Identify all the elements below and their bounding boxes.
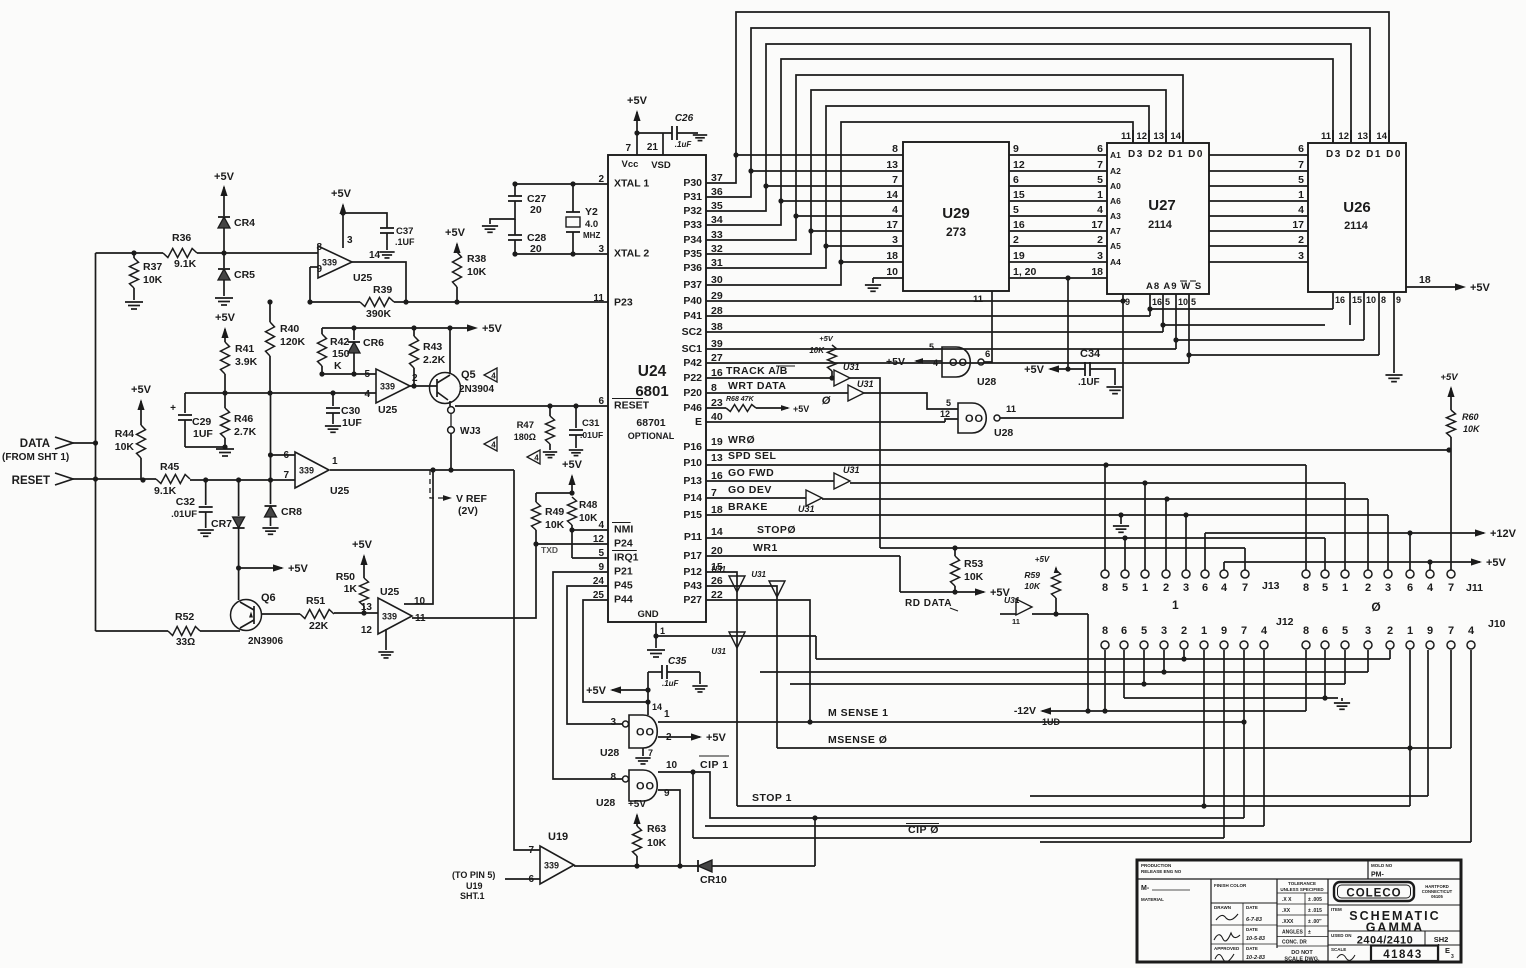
svg-text:+5V: +5V xyxy=(819,334,834,343)
wire U25d pin12 gnd xyxy=(385,629,387,650)
svg-text:DATE: DATE xyxy=(1246,946,1258,951)
wire gnd line to right xyxy=(656,635,816,637)
diode CR4 xyxy=(218,217,230,228)
svg-text:+12V: +12V xyxy=(1490,528,1517,540)
svg-text:14: 14 xyxy=(369,250,381,261)
connector J10 pin 7 xyxy=(1447,641,1455,649)
svg-text:4: 4 xyxy=(1468,625,1475,637)
svg-text:R47: R47 xyxy=(517,420,534,431)
transistor Q5 2N3904 xyxy=(430,373,461,404)
svg-text:SC2: SC2 xyxy=(682,326,703,338)
svg-text:11: 11 xyxy=(1006,404,1017,415)
svg-text:R63: R63 xyxy=(647,823,666,835)
wire U29 pin10 ground xyxy=(873,277,903,279)
node RESET input xyxy=(55,473,73,485)
svg-text:2: 2 xyxy=(1365,582,1371,594)
wire GO DEV line xyxy=(706,497,806,499)
svg-text:12: 12 xyxy=(940,409,950,419)
svg-text:R53: R53 xyxy=(964,558,983,570)
svg-text:5: 5 xyxy=(1141,625,1147,637)
svg-text:6-7-83: 6-7-83 xyxy=(1246,917,1262,923)
sheet ref triangle near R47 xyxy=(527,450,540,464)
svg-text:U31: U31 xyxy=(751,570,766,579)
svg-text:Vcc: Vcc xyxy=(622,159,639,170)
svg-text:C29: C29 xyxy=(192,416,211,428)
ground C30 xyxy=(325,425,341,427)
svg-text:OO: OO xyxy=(636,727,655,739)
power +5V at U25a xyxy=(342,205,344,248)
svg-text:13: 13 xyxy=(1357,131,1368,142)
svg-text:P45: P45 xyxy=(614,580,633,592)
ground C32 xyxy=(198,529,214,531)
svg-text:U28: U28 xyxy=(994,427,1013,439)
capacitor C34 xyxy=(1050,368,1085,370)
svg-text:9.1K: 9.1K xyxy=(174,258,197,270)
svg-text:VSD: VSD xyxy=(651,160,671,171)
svg-text:U31: U31 xyxy=(711,647,726,656)
svg-text:1: 1 xyxy=(1172,598,1179,612)
svg-text:2N3904: 2N3904 xyxy=(459,384,494,395)
connector J10 pin 2 xyxy=(1386,641,1394,649)
U26 top pin 11 xyxy=(1332,130,1334,143)
svg-text:Y2: Y2 xyxy=(585,206,598,218)
svg-text:390K: 390K xyxy=(366,308,392,320)
U26 top pin 13 xyxy=(1369,130,1371,143)
connector J12 pin 7 xyxy=(1240,641,1248,649)
wire J11-6 stub xyxy=(1409,533,1411,570)
connector J10 pin 6 xyxy=(1321,641,1329,649)
connector J10 pin 4 xyxy=(1467,641,1475,649)
svg-text:P16: P16 xyxy=(683,441,702,453)
svg-text:7: 7 xyxy=(1298,159,1304,171)
svg-text:CR8: CR8 xyxy=(281,506,302,518)
svg-text:C32: C32 xyxy=(176,496,195,508)
wire P12 15 chain xyxy=(706,572,737,806)
ground at U29 pin10 xyxy=(865,284,881,286)
svg-text:DATA: DATA xyxy=(20,438,50,450)
svg-text:339: 339 xyxy=(380,382,395,392)
svg-text:GO FWD: GO FWD xyxy=(728,467,774,479)
capacitor C32 xyxy=(205,480,207,505)
wire R53 top line xyxy=(880,547,1245,549)
svg-text:UNLESS SPECIFIED: UNLESS SPECIFIED xyxy=(1280,887,1324,892)
svg-text:OO: OO xyxy=(965,413,984,425)
wire WR1 to RD DATA line xyxy=(899,556,901,592)
sheet ref triangle near Q5 xyxy=(484,368,497,382)
svg-text:5: 5 xyxy=(1122,582,1128,594)
U26 bottom pin 9 xyxy=(1393,292,1395,373)
power +5V at R41 xyxy=(221,327,228,338)
wire C28 net xyxy=(514,219,516,235)
svg-text:P14: P14 xyxy=(683,492,702,504)
svg-text:M-: M- xyxy=(1141,885,1150,892)
svg-text:+5V: +5V xyxy=(586,685,607,697)
svg-text:WRT DATA: WRT DATA xyxy=(728,380,786,392)
wire STOP 1 line xyxy=(737,805,1410,807)
buffer U31a xyxy=(834,370,850,386)
svg-text:.01UF: .01UF xyxy=(171,509,197,520)
svg-text:P42: P42 xyxy=(683,357,702,369)
svg-text:P15: P15 xyxy=(683,509,702,521)
wire data bus loop P34 to U27 D0 pin14 xyxy=(706,75,1183,240)
U27 top pin 11 xyxy=(1132,130,1134,143)
svg-text:E: E xyxy=(1445,946,1450,955)
U27 top pin 14 xyxy=(1182,130,1184,143)
svg-text:V REF: V REF xyxy=(456,493,488,505)
capacitor C37 xyxy=(380,227,394,229)
wire J13-6 stub +12V xyxy=(1204,533,1206,570)
svg-text:P21: P21 xyxy=(614,566,633,578)
op-amp U25b xyxy=(376,369,410,403)
svg-text:U31: U31 xyxy=(1004,595,1020,605)
svg-text:(FROM SHT 1): (FROM SHT 1) xyxy=(2,452,69,463)
node DATA input xyxy=(55,437,73,449)
svg-text:13: 13 xyxy=(886,159,898,171)
svg-text:DATE: DATE xyxy=(1246,927,1258,932)
connector J10 pin 1 xyxy=(1406,641,1414,649)
connector J13 pin 8 xyxy=(1101,570,1109,578)
svg-text:1UF: 1UF xyxy=(193,428,213,440)
svg-text:3: 3 xyxy=(1451,954,1454,960)
svg-text:R43: R43 xyxy=(423,341,442,353)
svg-text:10K: 10K xyxy=(809,346,825,355)
connector J10 pin 8 xyxy=(1302,641,1310,649)
ground C37 xyxy=(379,251,394,253)
U27 bottom pin 16 xyxy=(1149,294,1151,309)
net -12V tap xyxy=(1040,707,1051,714)
svg-text:10: 10 xyxy=(414,596,426,607)
svg-text:U28: U28 xyxy=(977,376,996,388)
svg-text:7: 7 xyxy=(1097,159,1103,171)
connector J11 pin 3 xyxy=(1384,570,1392,578)
connector J13 pin 5 xyxy=(1121,570,1129,578)
resistor R40 xyxy=(269,302,271,322)
IC U27 2114 RAM xyxy=(1107,143,1209,294)
resistor R45 xyxy=(156,475,190,484)
svg-text:R51: R51 xyxy=(306,595,325,607)
wire fan line J12-6 to J10-6 xyxy=(1124,697,1338,699)
svg-text:A3: A3 xyxy=(1110,211,1121,221)
wire GO FWD line xyxy=(706,480,834,482)
svg-text:U25: U25 xyxy=(330,485,349,497)
connector J13 pin 3 xyxy=(1182,570,1190,578)
ground C31 xyxy=(569,449,583,451)
connector J12 pin 8 xyxy=(1101,641,1109,649)
power +5V at R50 xyxy=(360,554,367,565)
svg-text:6: 6 xyxy=(1121,625,1127,637)
connector J12 pin 5 xyxy=(1140,641,1148,649)
svg-text:+5V: +5V xyxy=(331,188,352,200)
svg-text:STOP 1: STOP 1 xyxy=(752,792,792,804)
svg-text:C30: C30 xyxy=(341,405,360,417)
svg-text:GO DEV: GO DEV xyxy=(728,484,772,496)
svg-text:MSENSE Ø: MSENSE Ø xyxy=(828,734,887,746)
wire C34 to ground xyxy=(1090,369,1115,385)
svg-text:WRØ: WRØ xyxy=(728,434,755,446)
resistor R51 xyxy=(300,610,334,619)
svg-text:U25: U25 xyxy=(380,586,399,598)
svg-text:10K: 10K xyxy=(964,571,984,583)
svg-text:8: 8 xyxy=(1303,625,1309,637)
junction R48/R49 top xyxy=(569,490,574,495)
svg-text:6801: 6801 xyxy=(635,383,668,400)
svg-text:± .005: ± .005 xyxy=(1308,897,1322,903)
svg-text:U31: U31 xyxy=(843,362,860,372)
svg-text:4: 4 xyxy=(892,204,898,216)
svg-text:U31: U31 xyxy=(843,465,860,475)
svg-text:4.0: 4.0 xyxy=(585,219,598,230)
svg-text:3: 3 xyxy=(1183,582,1189,594)
svg-text:A8 A9 W S: A8 A9 W S xyxy=(1146,281,1202,292)
svg-text:RESET: RESET xyxy=(614,400,650,412)
svg-text:DO NOT: DO NOT xyxy=(1291,950,1313,956)
ground R46 xyxy=(216,448,234,450)
svg-text:WR1: WR1 xyxy=(753,542,778,554)
svg-text:15: 15 xyxy=(1352,295,1362,305)
svg-text:7: 7 xyxy=(1241,625,1247,637)
svg-text:R50: R50 xyxy=(336,571,355,583)
op-amp U25c xyxy=(295,452,329,488)
resistor R42 xyxy=(321,328,323,334)
wire J11-7 stub R60 xyxy=(1450,437,1452,570)
svg-text:OO: OO xyxy=(636,781,655,793)
wire P45 chain xyxy=(567,586,623,724)
svg-text:PM-: PM- xyxy=(1371,872,1385,879)
wire J11-2 stub xyxy=(1367,499,1369,570)
ground at J10-6 line xyxy=(1341,698,1343,701)
wire U27 to U26 pin 17 line xyxy=(1209,230,1308,232)
wire branch to U29 pin 8 xyxy=(733,152,738,157)
op-amp U25a xyxy=(318,246,352,278)
svg-text:9: 9 xyxy=(316,264,322,275)
svg-text:1K: 1K xyxy=(344,583,358,595)
wire branch to U29 pin 14 xyxy=(778,198,783,203)
power +5V at R38 xyxy=(456,244,458,252)
svg-text:J11: J11 xyxy=(1466,582,1483,594)
resistor R37 xyxy=(133,253,135,258)
svg-text:8: 8 xyxy=(316,242,322,253)
svg-text:U25: U25 xyxy=(378,404,397,416)
ground R37 xyxy=(125,301,143,303)
wire U28a output to U29 pin11 xyxy=(984,291,992,362)
svg-text:3: 3 xyxy=(1097,250,1103,262)
svg-text:9: 9 xyxy=(1013,143,1019,155)
svg-text:12: 12 xyxy=(361,625,373,636)
svg-text:2: 2 xyxy=(1181,625,1187,637)
wire data bus loop P36 to U27 D2 pin12 xyxy=(706,106,1149,268)
ground C35 xyxy=(692,685,707,687)
svg-text:16: 16 xyxy=(1335,295,1345,305)
wire +12V line xyxy=(1205,532,1484,534)
wire data bus loop P32 to U26 D2 pin12 xyxy=(706,44,1351,211)
wire U25a output xyxy=(352,262,406,302)
svg-text:R49: R49 xyxy=(545,506,564,518)
U26 bottom pin 10 xyxy=(1363,292,1365,340)
U27 top pin 13 xyxy=(1165,130,1167,143)
svg-text:4: 4 xyxy=(1427,582,1434,594)
jumper WJ3 circles xyxy=(448,407,455,414)
svg-text:P32: P32 xyxy=(683,205,702,217)
svg-text:Q6: Q6 xyxy=(261,592,276,604)
resistor R52 xyxy=(168,627,200,636)
svg-text:1: 1 xyxy=(660,626,665,636)
U26 bottom pin 15 xyxy=(1349,292,1351,325)
wire S row xyxy=(1189,354,1379,356)
U26 top pin 14 xyxy=(1388,130,1390,143)
svg-text:+5V: +5V xyxy=(627,95,648,107)
ground tap on BRAKE xyxy=(1120,515,1122,524)
svg-text:Q5: Q5 xyxy=(461,369,476,381)
svg-text:U28: U28 xyxy=(600,747,619,759)
svg-text:1: 1 xyxy=(664,709,670,720)
svg-text:13: 13 xyxy=(361,602,373,613)
svg-text:A1: A1 xyxy=(1110,150,1121,160)
svg-text:P36: P36 xyxy=(683,262,702,274)
ground at C26 xyxy=(693,134,707,136)
svg-text:DRAWN: DRAWN xyxy=(1214,905,1231,910)
svg-text:U25: U25 xyxy=(353,272,372,284)
svg-text:XTAL 1: XTAL 1 xyxy=(614,178,649,190)
wire Q6 base to R51 xyxy=(262,613,301,615)
wire U29 pin 6 to U27 pin 5 (A0) xyxy=(1009,185,1107,187)
svg-text:ANGLES: ANGLES xyxy=(1282,930,1304,936)
wire +5V line xyxy=(1224,561,1480,563)
svg-text:4: 4 xyxy=(1221,582,1228,594)
wire U19 pin6 input xyxy=(505,878,540,880)
svg-text:P22: P22 xyxy=(683,372,702,384)
U26 bottom pin 8 xyxy=(1378,292,1380,355)
svg-text:10-2-83: 10-2-83 xyxy=(1246,955,1265,961)
svg-text:P27: P27 xyxy=(683,594,702,606)
svg-text:18: 18 xyxy=(1419,274,1431,286)
wire line 29 P40 xyxy=(706,300,1123,302)
svg-text:C31: C31 xyxy=(582,418,600,429)
svg-text:U29: U29 xyxy=(942,205,970,222)
wire U27 to U26 pin 7 line xyxy=(1209,170,1308,172)
svg-text:U27: U27 xyxy=(1148,197,1176,214)
wire to U28c pin14 xyxy=(647,690,649,715)
buffer U31c xyxy=(834,473,850,489)
svg-text:5: 5 xyxy=(1165,297,1170,307)
svg-text:U24: U24 xyxy=(638,363,667,380)
ground at U24 pin 1 xyxy=(647,649,665,651)
svg-text:P31: P31 xyxy=(683,191,702,203)
wire P43 26 chain xyxy=(706,586,777,748)
svg-text:20: 20 xyxy=(530,204,542,216)
svg-text:A0: A0 xyxy=(1110,181,1121,191)
wire P46 23 line with resistor R68 47K xyxy=(706,407,726,409)
connector J13 pin 6 xyxy=(1201,570,1209,578)
svg-text:17: 17 xyxy=(886,219,898,231)
capacitor C29 polarized xyxy=(184,393,186,413)
svg-text:18: 18 xyxy=(886,250,898,262)
svg-text:± .00″: ± .00″ xyxy=(1308,919,1322,925)
wire Q5 emitter xyxy=(449,401,451,406)
svg-text:1: 1 xyxy=(1142,582,1148,594)
wire J11-4 stub xyxy=(1429,562,1431,570)
svg-text:3: 3 xyxy=(1161,625,1167,637)
sheet ref triangle near WJ3 xyxy=(484,437,497,451)
diode CR10 xyxy=(698,860,712,872)
svg-text:C34: C34 xyxy=(1080,348,1101,360)
wire data bus loop P33 to U26 D3 pin11 xyxy=(706,59,1333,225)
resistor R44 xyxy=(137,425,146,458)
svg-text:SPD SEL: SPD SEL xyxy=(728,450,777,462)
wire TRACK A/B line xyxy=(706,377,834,379)
svg-text:16: 16 xyxy=(1152,297,1162,307)
svg-text:9: 9 xyxy=(1427,625,1433,637)
wire R40 chain down CR8 xyxy=(270,393,272,504)
svg-text:Ø: Ø xyxy=(1371,600,1380,614)
svg-text:M SENSE 1: M SENSE 1 xyxy=(828,707,889,719)
svg-text:7: 7 xyxy=(528,845,534,856)
svg-text:10: 10 xyxy=(1366,295,1376,305)
wire U25c output line xyxy=(330,469,514,471)
wire U27 to U26 pin 3 line xyxy=(1209,261,1308,263)
wire J11-3 stub xyxy=(1387,515,1389,570)
svg-text:2114: 2114 xyxy=(1344,220,1369,232)
svg-text:FINISH COLOR: FINISH COLOR xyxy=(1214,883,1247,888)
svg-text:339: 339 xyxy=(544,861,559,871)
svg-text:8: 8 xyxy=(892,143,898,155)
ground C34 xyxy=(1106,386,1123,388)
svg-text:14: 14 xyxy=(652,702,662,712)
U24 pin 7 Vcc top stub xyxy=(636,133,638,155)
wire A9 row xyxy=(1163,324,1325,326)
diode CR8 xyxy=(265,506,277,517)
svg-text:U19: U19 xyxy=(466,881,483,891)
svg-text:120K: 120K xyxy=(280,336,306,348)
svg-text:1: 1 xyxy=(1342,582,1348,594)
NAND gate U28a xyxy=(942,347,970,377)
svg-text:5: 5 xyxy=(929,342,934,352)
wire data bus loop P31 to U26 D1 pin13 xyxy=(706,28,1370,197)
svg-text:3.9K: 3.9K xyxy=(235,356,258,368)
svg-text:.01UF: .01UF xyxy=(580,430,603,440)
connector J12 pin 4 xyxy=(1260,641,1268,649)
buffer U31g xyxy=(729,632,745,648)
buffer U31e xyxy=(729,576,745,592)
U26 pin18 +5V xyxy=(1406,286,1462,288)
svg-text:APPROVED: APPROVED xyxy=(1214,946,1240,951)
wire U28d pin9 down xyxy=(658,790,680,866)
svg-text:R44: R44 xyxy=(115,428,134,440)
ground CR5 xyxy=(215,297,233,299)
power +5V at R44 xyxy=(137,399,144,410)
svg-text:CR10: CR10 xyxy=(700,874,727,886)
svg-text:339: 339 xyxy=(322,258,337,268)
svg-text:2114: 2114 xyxy=(1148,219,1173,231)
svg-text:2.7K: 2.7K xyxy=(234,426,257,438)
svg-text:A6: A6 xyxy=(1110,196,1121,206)
svg-text:15: 15 xyxy=(1013,189,1025,201)
resistor R38 xyxy=(456,287,458,302)
svg-text:+5V: +5V xyxy=(445,227,466,239)
wire data bus loop P30 to U26 D0 pin14 xyxy=(706,12,1389,183)
svg-text:10K: 10K xyxy=(115,441,135,453)
svg-text:OO: OO xyxy=(949,357,968,369)
svg-text:4: 4 xyxy=(534,454,539,463)
wire fan line J12-5 to J10-5 xyxy=(790,683,1345,685)
wire line 39 SC1 xyxy=(706,348,1176,350)
capacitor C31 xyxy=(575,406,577,428)
svg-text:8: 8 xyxy=(1102,582,1108,594)
svg-text:WJ3: WJ3 xyxy=(460,426,481,437)
svg-text:14: 14 xyxy=(1170,131,1181,142)
buffer U31h RD DATA xyxy=(1016,599,1032,615)
svg-text:SCALE: SCALE xyxy=(1331,947,1346,952)
svg-text:CONC. DR: CONC. DR xyxy=(1282,940,1307,946)
